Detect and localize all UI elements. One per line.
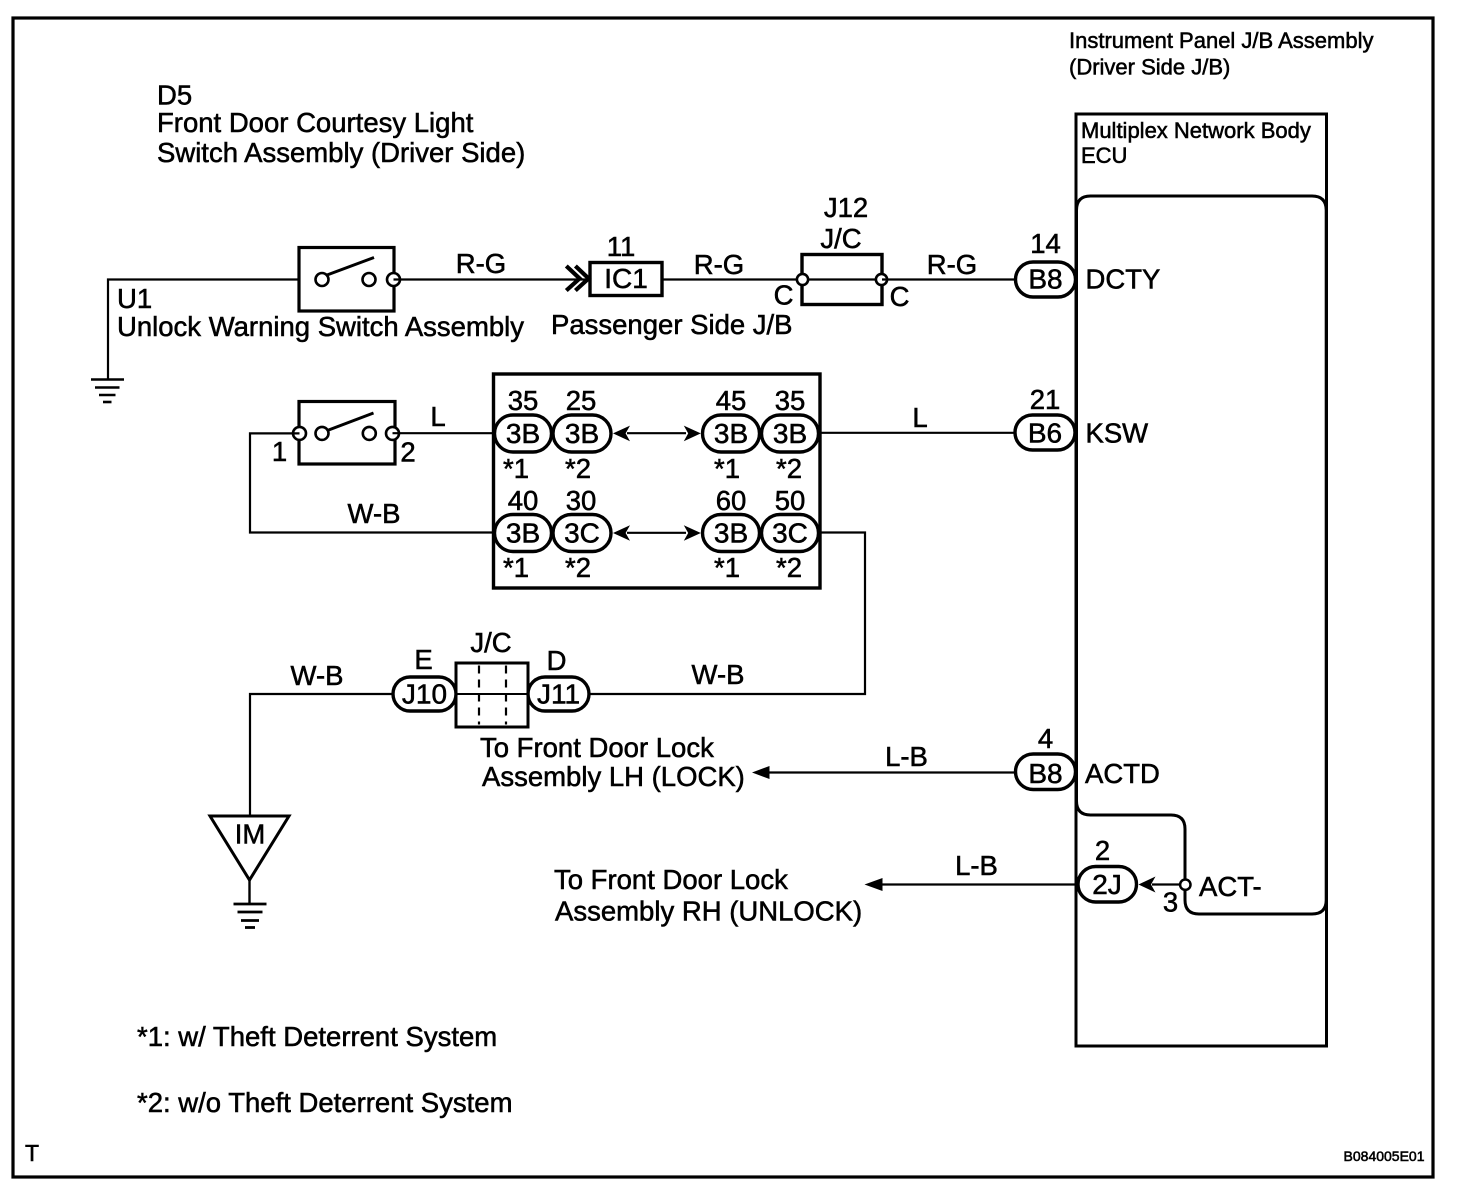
svg-text:*2: *2 bbox=[776, 453, 802, 484]
svg-text:D: D bbox=[547, 645, 567, 676]
svg-text:Unlock Warning Switch Assembly: Unlock Warning Switch Assembly bbox=[117, 311, 524, 342]
connector 3B row1 c bbox=[703, 415, 760, 452]
ground symbol U1 bbox=[91, 380, 124, 403]
connector 3C row2 d bbox=[762, 515, 819, 552]
wire IM to ground bbox=[248, 880, 250, 903]
svg-text:R-G: R-G bbox=[694, 249, 744, 280]
connector B8 pin 14 DCTY bbox=[1016, 262, 1076, 297]
svg-text:B8: B8 bbox=[1028, 758, 1062, 789]
junction block box bbox=[494, 374, 821, 588]
wire R-G switch to IC1 bbox=[394, 278, 590, 280]
svg-text:Instrument Panel J/B Assembly: Instrument Panel J/B Assembly bbox=[1069, 28, 1373, 53]
wire L-B B8 to door lock LH with arrow bbox=[752, 766, 1016, 779]
svg-text:Multiplex Network Body: Multiplex Network Body bbox=[1081, 118, 1311, 143]
svg-text:DCTY: DCTY bbox=[1086, 264, 1161, 295]
connector J10 bbox=[393, 677, 456, 711]
svg-text:*1: *1 bbox=[503, 552, 529, 583]
svg-text:2J: 2J bbox=[1092, 869, 1122, 900]
svg-text:3B: 3B bbox=[506, 518, 540, 549]
svg-text:3B: 3B bbox=[506, 418, 540, 449]
label J12 J/C bbox=[820, 192, 868, 254]
svg-text:W-B: W-B bbox=[348, 498, 401, 529]
svg-text:*2: w/o Theft Deterrent System: *2: w/o Theft Deterrent System bbox=[137, 1087, 512, 1118]
svg-text:3B: 3B bbox=[714, 518, 748, 549]
wire L switch to junction block bbox=[393, 432, 496, 434]
svg-text:2: 2 bbox=[1095, 835, 1110, 866]
wire L junction block to B6 bbox=[819, 432, 1016, 434]
wire R-G J12 to B8 bbox=[882, 278, 1016, 280]
connector J11 bbox=[528, 677, 589, 711]
svg-text:*2: *2 bbox=[776, 552, 802, 583]
svg-text:*2: *2 bbox=[565, 552, 591, 583]
svg-text:3B: 3B bbox=[714, 418, 748, 449]
svg-text:40: 40 bbox=[508, 485, 539, 516]
svg-text:1: 1 bbox=[272, 436, 287, 467]
svg-text:*2: *2 bbox=[565, 453, 591, 484]
label D5 Front Door Courtesy Light Switch Assembly bbox=[157, 80, 525, 169]
wire with mating arrows row1 bbox=[613, 426, 701, 442]
junction IC1 Passenger Side J/B bbox=[590, 263, 662, 296]
svg-text:3B: 3B bbox=[773, 418, 807, 449]
switch D5 front door courtesy light bbox=[293, 402, 399, 465]
svg-text:3: 3 bbox=[1163, 887, 1178, 918]
svg-text:ACTD: ACTD bbox=[1085, 758, 1160, 789]
svg-text:D5: D5 bbox=[157, 80, 192, 111]
ECU U2 Multiplex Network Body ECU outline bbox=[1077, 196, 1327, 914]
svg-text:50: 50 bbox=[775, 485, 806, 516]
wire R-G IC1 to J12 bbox=[662, 278, 803, 280]
node pin 3 on ECU bbox=[1180, 880, 1190, 890]
label U1 Unlock Warning Switch Assembly bbox=[117, 283, 524, 342]
svg-text:*1: *1 bbox=[714, 552, 740, 583]
svg-text:Front Door Courtesy Light: Front Door Courtesy Light bbox=[157, 107, 474, 138]
svg-text:J/C: J/C bbox=[820, 223, 861, 254]
svg-text:To Front Door Lock: To Front Door Lock bbox=[554, 864, 788, 895]
junction connector J12 bbox=[797, 255, 887, 305]
svg-text:3C: 3C bbox=[772, 518, 808, 549]
connector 3B row2 c bbox=[703, 515, 760, 552]
svg-text:ECU: ECU bbox=[1081, 143, 1127, 168]
ground point IM triangle bbox=[210, 816, 289, 880]
svg-text:*1: *1 bbox=[503, 453, 529, 484]
svg-text:Switch Assembly (Driver Side): Switch Assembly (Driver Side) bbox=[157, 137, 525, 168]
junction connector box with dashed splice lines bbox=[456, 663, 528, 727]
svg-text:To Front Door Lock: To Front Door Lock bbox=[480, 732, 714, 763]
wire U1 switch to ground bbox=[108, 280, 299, 380]
svg-text:R-G: R-G bbox=[927, 249, 977, 280]
svg-text:R-G: R-G bbox=[456, 248, 506, 279]
svg-text:C: C bbox=[890, 281, 910, 312]
svg-text:ACT-: ACT- bbox=[1199, 871, 1262, 902]
svg-text:21: 21 bbox=[1030, 384, 1061, 415]
svg-text:35: 35 bbox=[775, 385, 806, 416]
svg-text:30: 30 bbox=[566, 485, 597, 516]
label To Front Door Lock Assembly RH (UNLOCK) bbox=[554, 864, 862, 927]
label Multiplex Network Body ECU bbox=[1081, 118, 1311, 168]
svg-text:L-B: L-B bbox=[955, 850, 998, 881]
label Instrument Panel J/B Assembly bbox=[1069, 28, 1373, 80]
svg-text:14: 14 bbox=[1030, 228, 1061, 259]
svg-text:Assembly RH (UNLOCK): Assembly RH (UNLOCK) bbox=[555, 896, 862, 927]
svg-text:IM: IM bbox=[235, 819, 266, 850]
svg-text:*1: w/ Theft Deterrent System: *1: w/ Theft Deterrent System bbox=[137, 1021, 497, 1052]
svg-text:*1: *1 bbox=[714, 453, 740, 484]
mating arrow into 2J bbox=[1139, 877, 1182, 893]
svg-text:IC1: IC1 bbox=[604, 263, 648, 294]
connector B6 pin 21 KSW bbox=[1015, 415, 1075, 450]
svg-text:KSW: KSW bbox=[1086, 418, 1149, 449]
svg-text:Passenger Side J/B: Passenger Side J/B bbox=[551, 309, 793, 340]
svg-text:11: 11 bbox=[607, 231, 636, 262]
svg-text:J/C: J/C bbox=[470, 627, 511, 658]
svg-text:W-B: W-B bbox=[291, 660, 344, 691]
wire W-B J10 to IM bbox=[250, 694, 393, 815]
wire W-B switch pin1 to junction block row2 bbox=[250, 433, 495, 532]
svg-text:2: 2 bbox=[400, 437, 415, 468]
svg-text:J11: J11 bbox=[537, 679, 580, 710]
svg-text:60: 60 bbox=[716, 485, 747, 516]
svg-text:4: 4 bbox=[1038, 723, 1053, 754]
svg-text:W-B: W-B bbox=[692, 659, 745, 690]
svg-text:C: C bbox=[774, 280, 794, 311]
connector B8 pin 4 ACTD bbox=[1016, 754, 1076, 790]
connector arrows into IC1 bbox=[566, 266, 588, 291]
connector 3B row1 b bbox=[553, 415, 611, 452]
svg-text:E: E bbox=[414, 644, 432, 675]
svg-text:3B: 3B bbox=[565, 418, 599, 449]
svg-text:U1: U1 bbox=[117, 283, 152, 314]
label To Front Door Lock Assembly LH (LOCK) bbox=[480, 732, 745, 792]
connector 2J pin 2 bbox=[1078, 867, 1137, 903]
wire with mating arrows row2 bbox=[613, 525, 701, 541]
svg-text:B084005E01: B084005E01 bbox=[1344, 1148, 1425, 1164]
Instrument Panel J/B outer box bbox=[1076, 114, 1327, 1046]
svg-text:Assembly LH (LOCK): Assembly LH (LOCK) bbox=[482, 761, 745, 792]
svg-text:L: L bbox=[430, 401, 445, 432]
svg-text:B8: B8 bbox=[1028, 264, 1062, 295]
svg-text:35: 35 bbox=[508, 385, 539, 416]
wire L-B 2J to door lock RH with arrow bbox=[865, 878, 1079, 891]
svg-text:(Driver Side J/B): (Driver Side J/B) bbox=[1069, 55, 1230, 80]
switch U1 Unlock Warning Switch Assembly bbox=[299, 248, 400, 312]
ground symbol IM bbox=[234, 904, 267, 928]
svg-text:L-B: L-B bbox=[885, 741, 928, 772]
svg-text:3C: 3C bbox=[564, 518, 600, 549]
connector 3B row1 d bbox=[762, 415, 819, 452]
svg-text:25: 25 bbox=[566, 385, 597, 416]
svg-text:T: T bbox=[25, 1140, 39, 1166]
svg-text:L: L bbox=[912, 402, 927, 433]
connector 3C row2 b bbox=[553, 515, 611, 552]
wire W-B junction block row2 to J11 bbox=[589, 533, 865, 695]
svg-text:45: 45 bbox=[716, 385, 747, 416]
svg-text:J12: J12 bbox=[824, 192, 868, 223]
connector 3B row1 a bbox=[495, 415, 552, 452]
svg-text:B6: B6 bbox=[1028, 418, 1062, 449]
connector 3B row2 a bbox=[495, 515, 552, 552]
svg-text:J10: J10 bbox=[402, 679, 447, 710]
